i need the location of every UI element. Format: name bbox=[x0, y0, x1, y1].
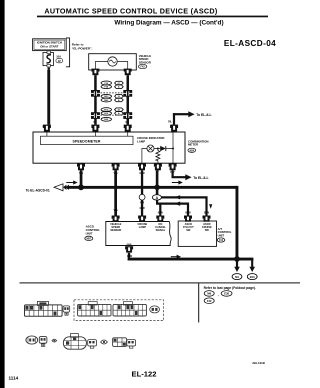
inline connector on left sensor wire (upper) bbox=[91, 90, 100, 97]
branch wire to ASCD cruise switch bbox=[161, 197, 206, 215]
connector face N (4-pin small) bbox=[127, 340, 136, 349]
svg-text:M24: M24 bbox=[190, 149, 195, 152]
note ref oval M6 bbox=[204, 291, 214, 297]
combination meter box bbox=[33, 132, 185, 163]
inline connector on left sensor wire (lower) bbox=[91, 112, 100, 119]
lamp circuit wiring bbox=[142, 132, 173, 163]
svg-text:SW: SW bbox=[186, 228, 191, 232]
meter connector ref oval M24 bbox=[188, 148, 196, 152]
vehicle speed sensor box bbox=[89, 54, 137, 70]
svg-text:R/L: R/L bbox=[168, 121, 172, 124]
footer separator rule bbox=[20, 282, 301, 283]
svg-text:B/W: B/W bbox=[158, 210, 164, 214]
wire W fuse to combination meter bbox=[47, 70, 50, 125]
svg-text:G/W: G/W bbox=[127, 254, 133, 258]
wire meter G/W down to ASCD unit bbox=[141, 170, 143, 215]
flow arrow on lower branch (left-pointing) bbox=[174, 202, 180, 206]
fuse bottom terminal bbox=[47, 64, 50, 67]
svg-text:“EL-POWER”.: “EL-POWER”. bbox=[72, 47, 93, 51]
svg-text:LAMP: LAMP bbox=[139, 225, 147, 229]
fuse symbol bbox=[46, 55, 51, 63]
dashed connector link lower bbox=[101, 114, 123, 116]
ground wire to bottom return bbox=[128, 253, 130, 259]
connector face J (oval 6-cavity) bbox=[63, 334, 86, 350]
bottom return wire bbox=[128, 258, 254, 261]
svg-text:ON or START: ON or START bbox=[40, 45, 58, 49]
svg-text:Y/G: Y/G bbox=[113, 208, 117, 212]
ASCD unit ref oval M57 bbox=[85, 236, 93, 240]
refer-to bracket bbox=[66, 38, 70, 67]
junction node B bbox=[154, 185, 160, 191]
A/T unit terminal (ASCD cruise sw) bbox=[203, 216, 211, 222]
page left black margin bar bbox=[0, 0, 5, 388]
inline connector on right sensor wire (upper) bbox=[123, 90, 132, 97]
connector face G (2-pin with stem) bbox=[39, 337, 47, 347]
ASCD control unit box (torn right edge) bbox=[106, 222, 171, 246]
unit terminal (DO cancel signal) bbox=[156, 216, 164, 222]
junction dots in lamp circuit bbox=[157, 148, 159, 150]
connector face C bbox=[78, 302, 111, 316]
meter top terminal (G wire) bbox=[124, 125, 132, 132]
meter bottom terminal (R/Y) bbox=[169, 163, 177, 170]
svg-text:Refer to last page (Foldout pa: Refer to last page (Foldout page). bbox=[204, 286, 256, 290]
svg-text:To EL-ASCD-01: To EL-ASCD-01 bbox=[26, 188, 50, 192]
cruise indicator lamp symbol bbox=[147, 145, 154, 152]
svg-text:EL-ASCD-04: EL-ASCD-04 bbox=[224, 39, 276, 48]
meter top terminal (R/L wire) bbox=[170, 125, 178, 132]
svg-text:G: G bbox=[125, 121, 127, 124]
svg-text:GND: GND bbox=[127, 244, 132, 246]
junction node A bbox=[78, 184, 84, 190]
meter bottom terminal (speedo out) bbox=[77, 163, 85, 170]
wire sensor left to meter bbox=[94, 75, 97, 124]
svg-text:SENSOR: SENSOR bbox=[110, 228, 121, 232]
note ref oval F42 bbox=[204, 298, 214, 304]
page arrow To EL-ASCD-01 bbox=[54, 184, 63, 191]
drop ref oval M4 bbox=[232, 274, 242, 280]
svg-text:B/W: B/W bbox=[204, 210, 210, 214]
svg-text:1114: 1114 bbox=[9, 375, 19, 380]
wire meter B down to splice bbox=[156, 170, 159, 195]
branch wire to cancel signal and 4th cut bbox=[157, 200, 188, 216]
svg-text:F42: F42 bbox=[207, 299, 212, 303]
terminal pin hex refs column (row 2) bbox=[115, 81, 124, 115]
connector face M (6-cavity) bbox=[113, 338, 127, 347]
svg-text:SPEEDOMETER: SPEEDOMETER bbox=[73, 139, 101, 143]
sensor connector ref oval F42 bbox=[138, 64, 146, 68]
sensor terminal left bbox=[91, 69, 99, 76]
note ref oval E38 bbox=[221, 291, 232, 297]
svg-text:UNIT: UNIT bbox=[86, 231, 93, 235]
svg-text:M4: M4 bbox=[235, 275, 239, 279]
page-bottom drop right bbox=[251, 259, 253, 267]
junction node C bbox=[234, 256, 240, 262]
fuse ref box 32 bbox=[56, 59, 63, 63]
svg-text:UNIT: UNIT bbox=[218, 233, 225, 237]
unit terminal (vehicle speed sensor) bbox=[112, 216, 120, 222]
flow arrow on main wire (left) bbox=[66, 180, 77, 184]
speed sensor symbol bbox=[108, 57, 117, 66]
svg-text:E38: E38 bbox=[224, 292, 229, 296]
flow arrow down on G/W wire bbox=[140, 202, 144, 207]
wire ignition to fuse bbox=[48, 51, 50, 53]
sensor internal leads bbox=[95, 62, 127, 70]
svg-text:METER: METER bbox=[188, 143, 199, 147]
svg-text:M57: M57 bbox=[87, 239, 92, 241]
svg-text:SIGNAL: SIGNAL bbox=[156, 228, 166, 232]
diode bbox=[160, 146, 166, 151]
dashed connector link upper bbox=[101, 92, 123, 94]
footer note panel divider bbox=[198, 283, 199, 322]
svg-text:B10: B10 bbox=[250, 275, 255, 279]
splice ref oval A bbox=[152, 195, 161, 200]
arrow To EL-ILL (lower) bbox=[185, 174, 191, 180]
speedometer inner box bbox=[41, 136, 134, 144]
meter top terminal (W wire) bbox=[43, 125, 51, 132]
svg-text:SW: SW bbox=[205, 228, 210, 232]
fuse F box bbox=[43, 52, 53, 65]
svg-text:SENSOR: SENSOR bbox=[139, 60, 152, 64]
page-bottom drop left bbox=[236, 261, 238, 268]
svg-text:To EL-ILL: To EL-ILL bbox=[196, 113, 211, 117]
A/T unit terminal (ASCD 4th cut sw) bbox=[184, 216, 192, 222]
A/T control unit box bbox=[178, 221, 216, 246]
wire sensor right to meter bbox=[127, 75, 130, 124]
stubs from meter edge into speedometer bbox=[47, 132, 128, 136]
svg-text:M6: M6 bbox=[207, 292, 211, 296]
wire meter Y/G down to ASCD unit bbox=[114, 170, 117, 215]
connector face K (4-pin small) bbox=[88, 340, 97, 349]
inline connector circle on G/W wire bbox=[139, 194, 145, 200]
meter bottom terminal (cruise lamp G/W) bbox=[138, 163, 146, 170]
connector face D bbox=[113, 302, 146, 316]
connector face F (oval 3-pin) bbox=[26, 336, 38, 344]
A/T unit ref oval F10 bbox=[217, 238, 225, 242]
illumination wire R/Y to EL-ILL bbox=[173, 170, 186, 177]
meter bottom terminal (speed signal) bbox=[112, 163, 120, 170]
svg-text:To EL-ILL: To EL-ILL bbox=[193, 176, 208, 180]
inline connector before page arrow bbox=[63, 185, 66, 190]
connector face H (pointed oval) bbox=[52, 339, 57, 342]
main distribution wire bbox=[67, 186, 238, 189]
connector face L (pointed oval A) bbox=[101, 340, 108, 344]
flow arrow on bottom wire bbox=[171, 255, 181, 259]
svg-text:EL-122: EL-122 bbox=[132, 369, 157, 378]
inline connector on right sensor wire (lower) bbox=[123, 112, 132, 119]
unit terminal (cruise lamp) bbox=[138, 216, 146, 222]
arrow To EL-ILL (top) bbox=[188, 111, 194, 117]
ignition switch box bbox=[33, 39, 67, 51]
svg-text:B/W: B/W bbox=[185, 210, 191, 214]
dashed group box bbox=[74, 300, 164, 321]
svg-text:F42: F42 bbox=[141, 66, 146, 69]
flow arrow on branch (left-pointing) bbox=[174, 195, 180, 199]
fuse top terminal bbox=[47, 51, 50, 54]
main wire right corner down bbox=[236, 186, 239, 260]
svg-text:Wiring Diagram — ASCD — (Cont': Wiring Diagram — ASCD — (Cont'd) bbox=[114, 19, 223, 26]
connector face E (oval 2-pin) bbox=[150, 306, 160, 313]
svg-text:AEL121B: AEL121B bbox=[252, 361, 265, 365]
svg-text:,: , bbox=[218, 292, 219, 296]
illumination feed wire R/L bbox=[173, 113, 175, 125]
resistor bbox=[156, 151, 160, 161]
svg-text:10A: 10A bbox=[56, 55, 61, 59]
flow arrow on main wire (right) bbox=[172, 180, 183, 184]
title underline rule bbox=[37, 16, 268, 18]
svg-text:G/W: G/W bbox=[140, 206, 146, 210]
drop ref oval B10 bbox=[247, 274, 257, 280]
flow arrow down beside cruise sw wire bbox=[209, 204, 212, 209]
connector ref ovals column (row 1) bbox=[101, 81, 111, 121]
wire speedo out down to junction bbox=[80, 170, 83, 186]
meter bottom terminal (B) bbox=[154, 163, 162, 170]
connector face B (2-pin) bbox=[63, 306, 70, 315]
connector face A (meter 16-cavity) bbox=[25, 301, 63, 316]
sensor terminal right bbox=[124, 69, 132, 76]
svg-text:LAMP: LAMP bbox=[137, 139, 145, 143]
svg-text:AUTOMATIC SPEED CONTROL DEVICE: AUTOMATIC SPEED CONTROL DEVICE (ASCD) bbox=[44, 6, 218, 15]
meter top terminal (Y wire) bbox=[91, 125, 99, 132]
